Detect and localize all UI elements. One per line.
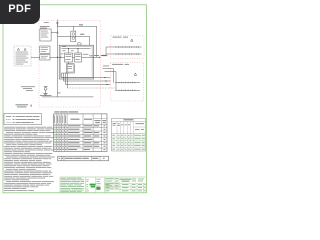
notes heading red mark [31,105,32,107]
label feeder destination [102,54,108,57]
wire B1-B2 [73,56,75,58]
metering cabinet dashed box RB1 [111,36,144,59]
bottom ground rail [42,96,94,98]
bottom stray note line [4,189,34,192]
logo cell side marks [86,179,89,191]
RB2 terminal row 1 [115,82,140,84]
drawing border frame [3,5,147,193]
RB2 terminal row 2 [115,90,140,92]
PDF badge [0,0,40,24]
title block grid [60,177,147,193]
utility boundary label [44,21,49,24]
vertical bus wire [56,22,58,97]
title block approvals column [96,178,120,189]
RB2 label [112,63,129,66]
control cabinet dashed box RB2 [111,63,144,102]
node N2 (meter tap) [57,32,59,34]
spares sub-table [58,156,109,161]
notes heading [16,104,29,107]
wire B2 output [82,57,101,58]
parts list table [54,114,107,151]
label above box A [40,26,50,28]
label 1L2 [80,34,84,35]
RB1 fuse string row 2 [114,53,142,55]
RB1 fuse string row 1 [114,46,142,48]
legend note box (dashed) [14,46,31,66]
wire 1L2 feeder [57,36,89,45]
bus wire P3 [66,84,111,85]
utility boundary dashed box [39,21,101,108]
breaker box B1 [65,53,73,62]
bus wire P2 [64,80,111,81]
relay box Dx [40,55,50,60]
RB2 delta note [134,73,136,75]
title block fields [105,184,145,191]
label output feeder [94,54,99,57]
Schneider Electric logo [90,184,96,188]
contactor box B3 [66,62,74,73]
label near bus bottom [58,92,61,95]
CT device D1 [71,26,76,41]
switchboard enclosure [59,45,93,79]
RB2 feeder wire F2 [105,72,117,91]
node N1 (utility tap) [57,20,59,27]
parts list title [54,111,78,114]
symbol legend box [4,114,42,125]
internal distribution bus [62,48,91,53]
title block disclaimer text [61,178,85,192]
breaker box B2 [75,53,82,62]
switchboard inner labels [61,46,93,56]
RB2 feeder wire F1 [103,69,114,83]
RB1 feeder wire [101,47,114,55]
wire 1L1 feeder [57,26,96,57]
switchboard inner panel [61,47,93,78]
bus wire P4 (spare, dotted) [68,87,116,89]
revision history table [112,118,146,151]
ground rail segment [40,95,52,97]
RB2 feeder label [103,65,109,68]
relay box C [40,46,50,53]
utility meter box A [40,29,51,41]
wire legend to switchboard [31,57,65,58]
RB1 label [113,36,129,39]
wire box A to bus [51,32,56,34]
nameplate oval tag [77,43,81,45]
transformer TX label [44,85,48,88]
transformer TX [44,87,47,93]
title block top-right cells [132,179,144,182]
title block drawing title [120,179,132,182]
ground symbol [43,94,47,96]
transformer area note [21,86,35,90]
bus riser elbows [62,73,68,88]
label 1L1 [79,24,83,25]
bus wire P1 [62,77,111,78]
notes paragraph lines [4,127,55,189]
RB1 delta note [131,39,133,41]
